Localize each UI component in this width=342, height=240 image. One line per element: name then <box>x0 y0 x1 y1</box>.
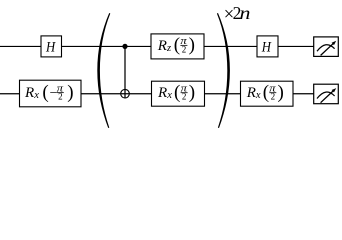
svg-text:z: z <box>166 43 171 54</box>
svg-text:R: R <box>157 85 167 101</box>
svg-text:R: R <box>24 85 34 101</box>
svg-text:x: x <box>255 90 261 101</box>
svg-text:): ) <box>278 82 284 103</box>
svg-text:x: x <box>33 90 39 101</box>
svg-text:H: H <box>261 38 272 55</box>
svg-text:R: R <box>157 38 167 54</box>
svg-text:): ) <box>189 35 195 56</box>
svg-text:): ) <box>67 82 73 103</box>
svg-text:(: ( <box>174 35 180 56</box>
svg-text:n: n <box>240 4 251 23</box>
svg-text:(: ( <box>174 82 180 103</box>
svg-text:H: H <box>45 38 56 55</box>
svg-text:2: 2 <box>271 92 276 102</box>
svg-text:2: 2 <box>58 92 63 102</box>
svg-text:R: R <box>246 85 256 101</box>
svg-text:2: 2 <box>182 92 187 102</box>
svg-text:x: x <box>166 90 172 101</box>
svg-text:): ) <box>189 82 195 103</box>
svg-text:(: ( <box>42 82 48 103</box>
svg-text:(: ( <box>263 82 269 103</box>
svg-text:2: 2 <box>182 44 187 54</box>
